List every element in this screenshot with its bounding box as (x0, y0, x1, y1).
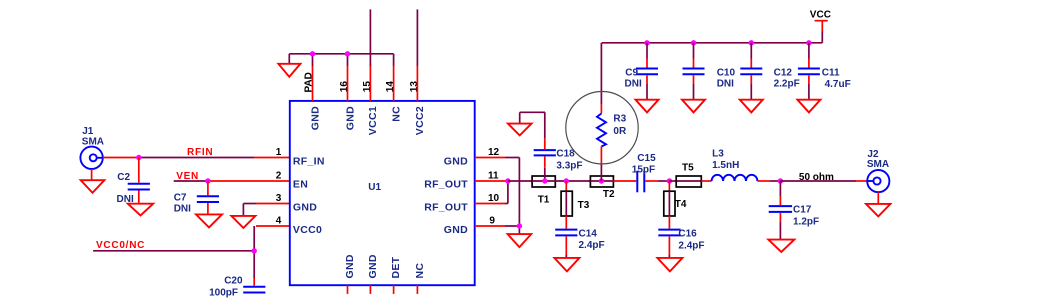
svg-text:GND: GND (293, 201, 317, 213)
svg-text:T5: T5 (682, 162, 694, 173)
node VCC0 junction (252, 248, 257, 253)
wire top GND bus (289, 54, 393, 64)
wire pin 13 VCC2 to top (416, 9, 418, 101)
wire through T2 (590, 180, 613, 182)
svg-text:DNI: DNI (174, 204, 191, 215)
wire pin 12 (475, 157, 520, 159)
svg-text:1.5nH: 1.5nH (712, 160, 739, 171)
ground at pin 3 (231, 216, 255, 228)
T5 box (676, 162, 701, 187)
svg-text:C14: C14 (579, 229, 598, 240)
svg-text:RF_OUT: RF_OUT (424, 179, 468, 191)
svg-text:C11: C11 (822, 68, 840, 79)
ground below C14 (554, 258, 579, 272)
ground below C12 (740, 100, 763, 113)
svg-text:T3: T3 (578, 200, 590, 211)
svg-text:C9: C9 (625, 68, 638, 79)
svg-text:L3: L3 (712, 149, 724, 160)
capacitor C17 (769, 181, 819, 240)
T1 box (532, 176, 555, 206)
node T4 junction (667, 178, 672, 183)
wire T1 to T2 (555, 180, 590, 182)
svg-text:4.7uF: 4.7uF (825, 79, 851, 90)
wire C18 top link (520, 112, 545, 123)
svg-text:C15: C15 (637, 153, 656, 164)
pin 2 wire (208, 180, 290, 182)
svg-text:4: 4 (276, 216, 282, 227)
wire pin 15 VCC1 to top (369, 9, 371, 101)
ground below C16 (657, 258, 682, 272)
connector J2 SMA (867, 149, 890, 192)
svg-text:J1: J1 (82, 126, 94, 137)
svg-text:GND: GND (444, 155, 468, 167)
svg-text:SMA: SMA (82, 136, 104, 147)
wire pin 9 (475, 225, 520, 227)
svg-text:C2: C2 (117, 172, 130, 183)
svg-text:VCC1: VCC1 (367, 106, 379, 135)
node C18 at T1 (542, 178, 547, 183)
wire to T5 (669, 180, 676, 182)
capacitor C7 (174, 181, 219, 215)
svg-text:10: 10 (488, 193, 500, 204)
capacitor C11 (798, 43, 851, 100)
svg-text:NC: NC (414, 263, 426, 279)
wire PAD pin (312, 54, 314, 101)
svg-text:VCC0: VCC0 (293, 224, 322, 236)
wire pin 14 (393, 54, 395, 101)
svg-text:DET: DET (390, 256, 402, 278)
svg-text:1: 1 (276, 147, 282, 158)
wire pin 11 (475, 180, 508, 182)
capacitor C14 (555, 229, 604, 258)
highlight circle around R3 (566, 92, 638, 164)
ground below J2 (866, 192, 890, 216)
svg-text:GND: GND (309, 106, 321, 130)
capacitor C10 (683, 43, 736, 100)
wire VCC0/NC net (93, 226, 254, 278)
svg-text:11: 11 (488, 171, 499, 182)
pin 1 wire (254, 157, 290, 159)
svg-text:2.2pF: 2.2pF (774, 79, 800, 90)
node PAD junction (310, 51, 315, 56)
resistor R3 (597, 43, 627, 181)
pin 3 wire (243, 204, 289, 216)
wire pin 16 (347, 54, 349, 101)
node VCC junction 2 (691, 40, 696, 45)
ground below J1 (81, 169, 105, 193)
T2 box (590, 176, 615, 200)
ground below C11 (797, 100, 820, 113)
ground below C7 (196, 214, 222, 227)
svg-text:VCC0/NC: VCC0/NC (96, 240, 145, 251)
svg-text:RFIN: RFIN (187, 147, 213, 158)
ground below C17 (768, 240, 794, 252)
svg-text:9: 9 (489, 216, 495, 227)
svg-text:C17: C17 (793, 205, 812, 216)
power symbol VCC (810, 10, 831, 43)
svg-text:T1: T1 (538, 195, 550, 206)
svg-text:VCC2: VCC2 (414, 106, 426, 135)
svg-text:2: 2 (276, 171, 282, 182)
svg-text:VCC: VCC (810, 10, 831, 21)
svg-text:GND: GND (344, 254, 356, 278)
node VEN junction (205, 178, 210, 183)
svg-text:T4: T4 (675, 199, 687, 210)
node R3 at T2 (599, 178, 604, 183)
wire right GND vertical (518, 158, 520, 235)
capacitor C2 (117, 158, 150, 206)
wire RF line to T1 (508, 180, 532, 182)
ground below C2 (128, 204, 153, 216)
svg-text:U1: U1 (368, 182, 381, 193)
node VCC junction C9 (644, 40, 649, 45)
capacitor C16 (658, 229, 704, 258)
svg-text:12: 12 (488, 147, 500, 158)
bottom pin stubs (348, 285, 418, 294)
ground below C10 (682, 100, 705, 113)
svg-text:DNI: DNI (625, 79, 642, 90)
wire VEN net (174, 180, 208, 182)
svg-text:2.4pF: 2.4pF (579, 240, 605, 251)
node C17 junction (778, 178, 783, 183)
node pin16 junction (345, 51, 350, 56)
node RF_OUT junction (505, 178, 510, 183)
connector J1 SMA (80, 126, 104, 169)
svg-text:GND: GND (444, 224, 468, 236)
wire through T1 (532, 180, 555, 182)
wire pin 10 (475, 181, 508, 204)
wire to J2 (780, 180, 867, 182)
wire L3 to C17 node (770, 180, 781, 182)
capacitor C12 (740, 43, 799, 100)
capacitor C20 (209, 276, 265, 299)
capacitor C18 (534, 112, 583, 181)
svg-text:DNI: DNI (717, 79, 734, 90)
svg-text:GND: GND (344, 106, 356, 130)
svg-text:SMA: SMA (867, 159, 889, 170)
inductor L3 (701, 149, 769, 182)
svg-text:3.3pF: 3.3pF (556, 160, 582, 171)
T3 box (561, 181, 590, 229)
svg-text:NC: NC (390, 106, 402, 122)
svg-text:GND: GND (367, 254, 379, 278)
ground at top bus (278, 64, 300, 77)
ground below C9 (636, 100, 659, 113)
svg-text:C7: C7 (174, 192, 187, 203)
wire RFIN net (139, 157, 254, 159)
svg-text:15pF: 15pF (632, 164, 655, 175)
wire VCC bus (602, 42, 823, 44)
svg-text:3: 3 (276, 193, 282, 204)
node RFIN junction (136, 155, 141, 160)
svg-text:RF_IN: RF_IN (293, 155, 325, 167)
svg-text:1.2pF: 1.2pF (793, 217, 819, 228)
svg-text:RF_OUT: RF_OUT (424, 201, 468, 213)
capacitor C15 (613, 153, 669, 192)
svg-text:C20: C20 (224, 276, 243, 287)
svg-text:EN: EN (293, 179, 308, 191)
svg-text:100pF: 100pF (209, 288, 238, 299)
svg-text:C18: C18 (556, 149, 575, 160)
T4 box (664, 181, 687, 229)
svg-text:2.4pF: 2.4pF (678, 241, 704, 252)
svg-text:T2: T2 (603, 189, 615, 200)
capacitor C9 (625, 43, 659, 100)
svg-text:C16: C16 (678, 229, 697, 240)
node T3 junction (564, 178, 569, 183)
ground below pin 9 (508, 234, 532, 247)
op-amp U1 (IC body) (290, 101, 475, 285)
svg-text:C12: C12 (774, 68, 793, 79)
wire J1 pin to RFIN node (103, 157, 139, 159)
ground on C18 GND link (508, 124, 532, 136)
svg-text:C10: C10 (717, 68, 736, 79)
pin 4 wire (256, 225, 290, 227)
node pin9 GND junction (517, 223, 522, 228)
svg-text:R3: R3 (613, 114, 626, 125)
svg-text:0R: 0R (613, 126, 627, 137)
node VCC junction C11 (806, 40, 811, 45)
node VCC junction C10 (749, 40, 754, 45)
